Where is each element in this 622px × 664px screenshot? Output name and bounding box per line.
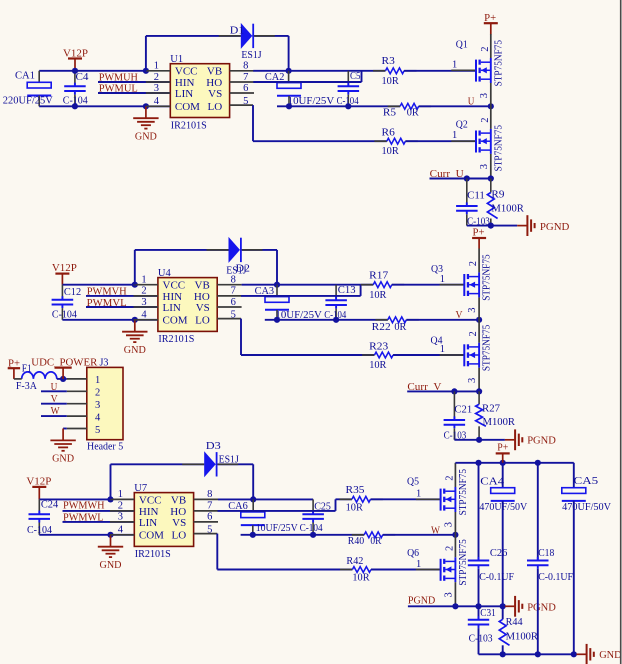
svg-text:F-3A: F-3A — [16, 381, 37, 392]
svg-text:Q2: Q2 — [456, 120, 468, 131]
svg-text:R44: R44 — [506, 617, 524, 628]
svg-text:R6: R6 — [382, 128, 395, 139]
svg-text:3: 3 — [95, 400, 100, 411]
svg-text:3: 3 — [479, 164, 490, 169]
svg-text:Q6: Q6 — [407, 548, 419, 559]
svg-text:Header 5: Header 5 — [87, 442, 123, 453]
svg-text:P+: P+ — [484, 13, 496, 24]
svg-text:PGND: PGND — [540, 222, 570, 233]
svg-text:M100R: M100R — [483, 417, 516, 428]
svg-text:VB: VB — [195, 280, 210, 292]
svg-text:0R: 0R — [394, 322, 406, 333]
svg-text:C-103: C-103 — [467, 216, 490, 227]
svg-text:VCC: VCC — [175, 66, 198, 78]
svg-text:LIN: LIN — [163, 302, 181, 314]
svg-text:LO: LO — [195, 315, 210, 327]
svg-text:STP75NF75: STP75NF75 — [493, 125, 504, 171]
svg-text:C-0.1UF: C-0.1UF — [479, 572, 514, 583]
svg-text:GND: GND — [52, 454, 74, 465]
svg-text:W: W — [51, 406, 60, 417]
svg-text:0R: 0R — [370, 536, 381, 547]
svg-text:LO: LO — [208, 101, 223, 113]
svg-text:GND: GND — [599, 650, 622, 661]
svg-text:10R: 10R — [382, 146, 399, 157]
svg-text:5: 5 — [95, 425, 100, 436]
svg-text:2: 2 — [154, 72, 159, 83]
svg-text:1: 1 — [154, 61, 159, 72]
svg-text:V12P: V12P — [26, 476, 51, 487]
svg-text:2: 2 — [141, 286, 146, 297]
svg-text:C-104: C-104 — [27, 525, 53, 536]
svg-text:2: 2 — [468, 261, 479, 266]
svg-text:3: 3 — [479, 93, 490, 98]
svg-text:3: 3 — [154, 83, 159, 94]
svg-text:STP75NF75: STP75NF75 — [458, 539, 469, 585]
svg-text:4: 4 — [141, 310, 147, 321]
svg-text:D3: D3 — [206, 441, 221, 452]
svg-text:10UF/25V: 10UF/25V — [256, 523, 298, 534]
svg-text:VB: VB — [207, 66, 222, 78]
svg-text:Q3: Q3 — [431, 264, 443, 275]
svg-text:10R: 10R — [369, 360, 386, 371]
svg-text:ES1J: ES1J — [226, 265, 246, 276]
svg-text:3: 3 — [467, 378, 478, 383]
svg-text:U7: U7 — [134, 483, 147, 494]
svg-text:Q4: Q4 — [431, 335, 444, 346]
svg-text:V12P: V12P — [63, 48, 88, 59]
svg-text:R22: R22 — [372, 322, 391, 333]
svg-text:CA5: CA5 — [574, 476, 599, 487]
svg-text:Q5: Q5 — [407, 477, 419, 488]
svg-text:470UF/50V: 470UF/50V — [562, 502, 611, 513]
svg-text:UDC_POWER: UDC_POWER — [31, 358, 97, 369]
svg-text:C-0.1UF: C-0.1UF — [538, 572, 573, 583]
svg-text:10R: 10R — [369, 290, 386, 301]
svg-text:P+: P+ — [497, 442, 508, 453]
svg-text:VS: VS — [196, 302, 210, 314]
svg-text:3: 3 — [118, 512, 123, 523]
svg-text:PGND: PGND — [408, 595, 436, 606]
svg-text:Q1: Q1 — [456, 40, 468, 51]
svg-text:D1: D1 — [230, 25, 245, 36]
svg-text:1: 1 — [416, 488, 421, 499]
svg-text:R40: R40 — [348, 536, 364, 547]
svg-text:0R: 0R — [407, 108, 419, 119]
svg-text:STP75NF75: STP75NF75 — [482, 325, 493, 371]
svg-text:C5: C5 — [350, 71, 361, 82]
svg-text:2: 2 — [480, 47, 491, 52]
svg-text:C-103: C-103 — [469, 634, 493, 645]
svg-text:STP75NF75: STP75NF75 — [493, 40, 504, 86]
svg-text:2: 2 — [444, 476, 455, 481]
svg-text:R42: R42 — [346, 556, 363, 567]
svg-text:M100R: M100R — [491, 204, 524, 215]
svg-text:4: 4 — [118, 525, 124, 536]
svg-text:J3: J3 — [100, 358, 109, 369]
svg-text:R35: R35 — [346, 485, 365, 496]
svg-text:STP75NF75: STP75NF75 — [482, 254, 493, 300]
svg-text:1: 1 — [95, 375, 100, 386]
svg-text:PGND: PGND — [527, 436, 556, 447]
svg-text:PWMWH: PWMWH — [63, 500, 105, 511]
svg-text:U4: U4 — [158, 268, 172, 279]
svg-text:U: U — [51, 382, 58, 393]
svg-text:C26: C26 — [490, 548, 507, 559]
svg-text:ES1J: ES1J — [241, 50, 261, 61]
svg-text:6: 6 — [207, 512, 212, 523]
svg-text:3: 3 — [467, 307, 478, 312]
svg-text:U1: U1 — [170, 54, 183, 65]
svg-text:3: 3 — [141, 297, 146, 308]
svg-text:220UF/25V: 220UF/25V — [3, 96, 53, 107]
svg-text:3: 3 — [443, 522, 454, 527]
svg-text:R5: R5 — [383, 108, 396, 119]
svg-text:4: 4 — [95, 412, 101, 423]
svg-text:COM: COM — [139, 530, 164, 542]
svg-text:C18: C18 — [538, 548, 554, 559]
svg-text:VB: VB — [171, 494, 186, 506]
svg-text:STP75NF75: STP75NF75 — [458, 469, 469, 515]
svg-text:C-104: C-104 — [52, 310, 78, 321]
svg-text:10UF/25V: 10UF/25V — [288, 96, 335, 107]
svg-text:C-103: C-103 — [444, 430, 467, 441]
svg-text:C12: C12 — [64, 287, 81, 298]
svg-text:4: 4 — [154, 96, 160, 107]
svg-text:2: 2 — [480, 117, 491, 122]
svg-text:C4: C4 — [76, 72, 90, 83]
svg-text:C13: C13 — [338, 285, 356, 296]
svg-text:10R: 10R — [382, 76, 399, 87]
svg-text:LIN: LIN — [139, 517, 157, 529]
svg-text:V: V — [51, 394, 58, 405]
svg-text:PGND: PGND — [527, 602, 556, 613]
svg-text:2: 2 — [468, 331, 479, 336]
svg-text:VS: VS — [208, 88, 222, 100]
svg-text:CA1: CA1 — [15, 71, 35, 82]
svg-text:LO: LO — [172, 530, 187, 542]
svg-text:R27: R27 — [482, 404, 500, 415]
svg-text:10R: 10R — [352, 573, 369, 584]
svg-text:10R: 10R — [346, 503, 363, 514]
svg-text:U: U — [468, 96, 475, 107]
svg-text:1: 1 — [452, 60, 457, 71]
svg-text:VCC: VCC — [139, 494, 162, 506]
svg-text:V: V — [456, 310, 463, 321]
svg-text:IR2101S: IR2101S — [158, 334, 194, 345]
svg-text:VCC: VCC — [163, 280, 186, 292]
svg-text:2: 2 — [95, 388, 100, 399]
svg-text:R23: R23 — [369, 341, 388, 352]
svg-text:LIN: LIN — [175, 88, 193, 100]
svg-text:1: 1 — [452, 130, 457, 141]
svg-text:8: 8 — [243, 61, 248, 72]
svg-text:GND: GND — [135, 131, 157, 142]
svg-text:1: 1 — [141, 275, 146, 286]
svg-text:C24: C24 — [41, 500, 59, 511]
svg-text:C31: C31 — [480, 608, 495, 619]
svg-text:3: 3 — [443, 592, 454, 597]
svg-text:VS: VS — [172, 517, 186, 529]
svg-text:IR2101S: IR2101S — [171, 120, 207, 131]
svg-text:1: 1 — [416, 559, 421, 570]
svg-text:R17: R17 — [369, 270, 388, 281]
svg-text:C21: C21 — [454, 404, 472, 415]
svg-text:P+: P+ — [473, 228, 485, 239]
svg-text:R3: R3 — [382, 56, 395, 67]
svg-text:V12P: V12P — [52, 263, 77, 274]
svg-text:P+: P+ — [8, 358, 20, 369]
svg-text:F1: F1 — [22, 363, 32, 374]
svg-text:COM: COM — [163, 315, 188, 327]
svg-text:2: 2 — [444, 546, 455, 551]
svg-text:GND: GND — [124, 345, 146, 356]
svg-text:CA4: CA4 — [480, 477, 505, 488]
svg-text:C11: C11 — [467, 190, 485, 201]
svg-text:GND: GND — [100, 560, 122, 571]
svg-text:R9: R9 — [491, 189, 504, 200]
svg-text:COM: COM — [175, 101, 200, 113]
svg-text:W: W — [431, 525, 440, 536]
svg-text:1: 1 — [440, 274, 445, 285]
svg-text:2: 2 — [118, 501, 123, 512]
svg-text:1: 1 — [118, 489, 123, 500]
svg-text:IR2101S: IR2101S — [135, 549, 171, 560]
svg-text:ES1J: ES1J — [219, 454, 239, 465]
svg-text:M100R: M100R — [506, 632, 538, 643]
svg-text:470UF/50V: 470UF/50V — [479, 502, 527, 513]
